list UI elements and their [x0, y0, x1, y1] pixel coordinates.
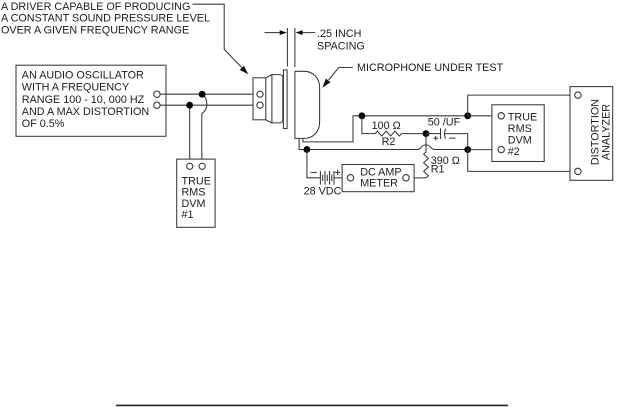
- node junction lower wire: [186, 102, 193, 109]
- wire node B riser and top rail to distortion analyzer: [468, 95, 575, 116]
- svg-text:MICROPHONE UNDER TEST: MICROPHONE UNDER TEST: [357, 62, 504, 74]
- node junction upper wire: [199, 91, 206, 98]
- svg-text:.25 INCH: .25 INCH: [317, 28, 361, 40]
- svg-text:RANGE 100 - 10, 000 HZ: RANGE 100 - 10, 000 HZ: [22, 94, 145, 106]
- true rms dvm #1: [177, 159, 215, 227]
- wire capacitor C1 to node B2: [445, 134, 468, 150]
- wire lower rail from mic to node B2 with hop over R1: [299, 138, 468, 149]
- node A: [359, 112, 366, 119]
- svg-text:AN AUDIO OSCILLATOR: AN AUDIO OSCILLATOR: [22, 69, 144, 81]
- node C: R2/C1/R1 junction: [423, 130, 430, 137]
- wire node B to DVM2 upper terminal: [468, 115, 498, 117]
- dimension .25 inch spacing: [265, 28, 365, 67]
- svg-text:ANALYZER: ANALYZER: [601, 104, 613, 160]
- wire node A to node B: [362, 115, 468, 117]
- distortion analyzer: [570, 87, 613, 181]
- svg-text:AND A MAX DISTORTION: AND A MAX DISTORTION: [22, 106, 149, 118]
- svg-text:OVER A GIVEN FREQUENCY RANGE: OVER A GIVEN FREQUENCY RANGE: [1, 25, 189, 37]
- resistor R1: [409, 134, 460, 178]
- true rms dvm #2: [492, 105, 544, 162]
- svg-text:#2: #2: [508, 146, 520, 158]
- wire node A to resistor R2: [362, 116, 375, 134]
- wire mic output to node A: [303, 116, 362, 142]
- svg-text:WITH A FREQUENCY: WITH A FREQUENCY: [22, 82, 129, 94]
- leader arrow to driver: [193, 4, 249, 74]
- wire battery to dc amp meter: [334, 177, 347, 179]
- wire oscillator lower output to driver: [160, 104, 257, 106]
- battery BT1 28 VDC: [304, 170, 342, 198]
- svg-text:28 VDC: 28 VDC: [304, 186, 342, 198]
- svg-text:#1: #1: [182, 209, 194, 221]
- wire lower junction to DVM1 left terminal: [189, 105, 191, 163]
- wire battery branch: [307, 150, 320, 178]
- driver LS1: [253, 70, 287, 129]
- wire upper junction to DVM1 right terminal with hop: [202, 94, 207, 163]
- callout note: driver description: [1, 1, 210, 37]
- svg-text:A CONSTANT SOUND PRESSURE LEVE: A CONSTANT SOUND PRESSURE LEVEL: [1, 13, 210, 25]
- svg-text:RMS: RMS: [508, 123, 532, 135]
- bottom rule: [116, 404, 508, 406]
- svg-text:TRUE: TRUE: [508, 112, 537, 124]
- microphone under test MK1: [295, 71, 320, 138]
- node D: battery branch: [304, 146, 311, 153]
- svg-text:R1: R1: [431, 163, 445, 175]
- node B2: [464, 146, 471, 153]
- node B: [464, 112, 471, 119]
- wire node B2 to distortion analyzer lower terminal: [468, 150, 575, 172]
- wire node B2 to DVM2 lower terminal: [468, 149, 498, 151]
- dc amp meter M1: [342, 165, 414, 192]
- capacitor C1: [426, 116, 461, 140]
- callout microphone under test: [322, 62, 503, 88]
- svg-text:METER: METER: [360, 177, 398, 189]
- svg-text:OF 0.5%: OF 0.5%: [22, 118, 65, 130]
- resistor R2: [372, 120, 426, 148]
- audio oscillator: [16, 65, 166, 136]
- wire oscillator upper output to driver: [160, 93, 257, 95]
- svg-text:DVM: DVM: [508, 134, 532, 146]
- svg-text:SPACING: SPACING: [317, 41, 365, 53]
- svg-text:100 Ω: 100 Ω: [372, 120, 401, 132]
- svg-text:A DRIVER CAPABLE OF PRODUCING: A DRIVER CAPABLE OF PRODUCING: [1, 1, 190, 13]
- svg-text:R2: R2: [382, 136, 396, 148]
- svg-text:50 /UF: 50 /UF: [428, 116, 461, 128]
